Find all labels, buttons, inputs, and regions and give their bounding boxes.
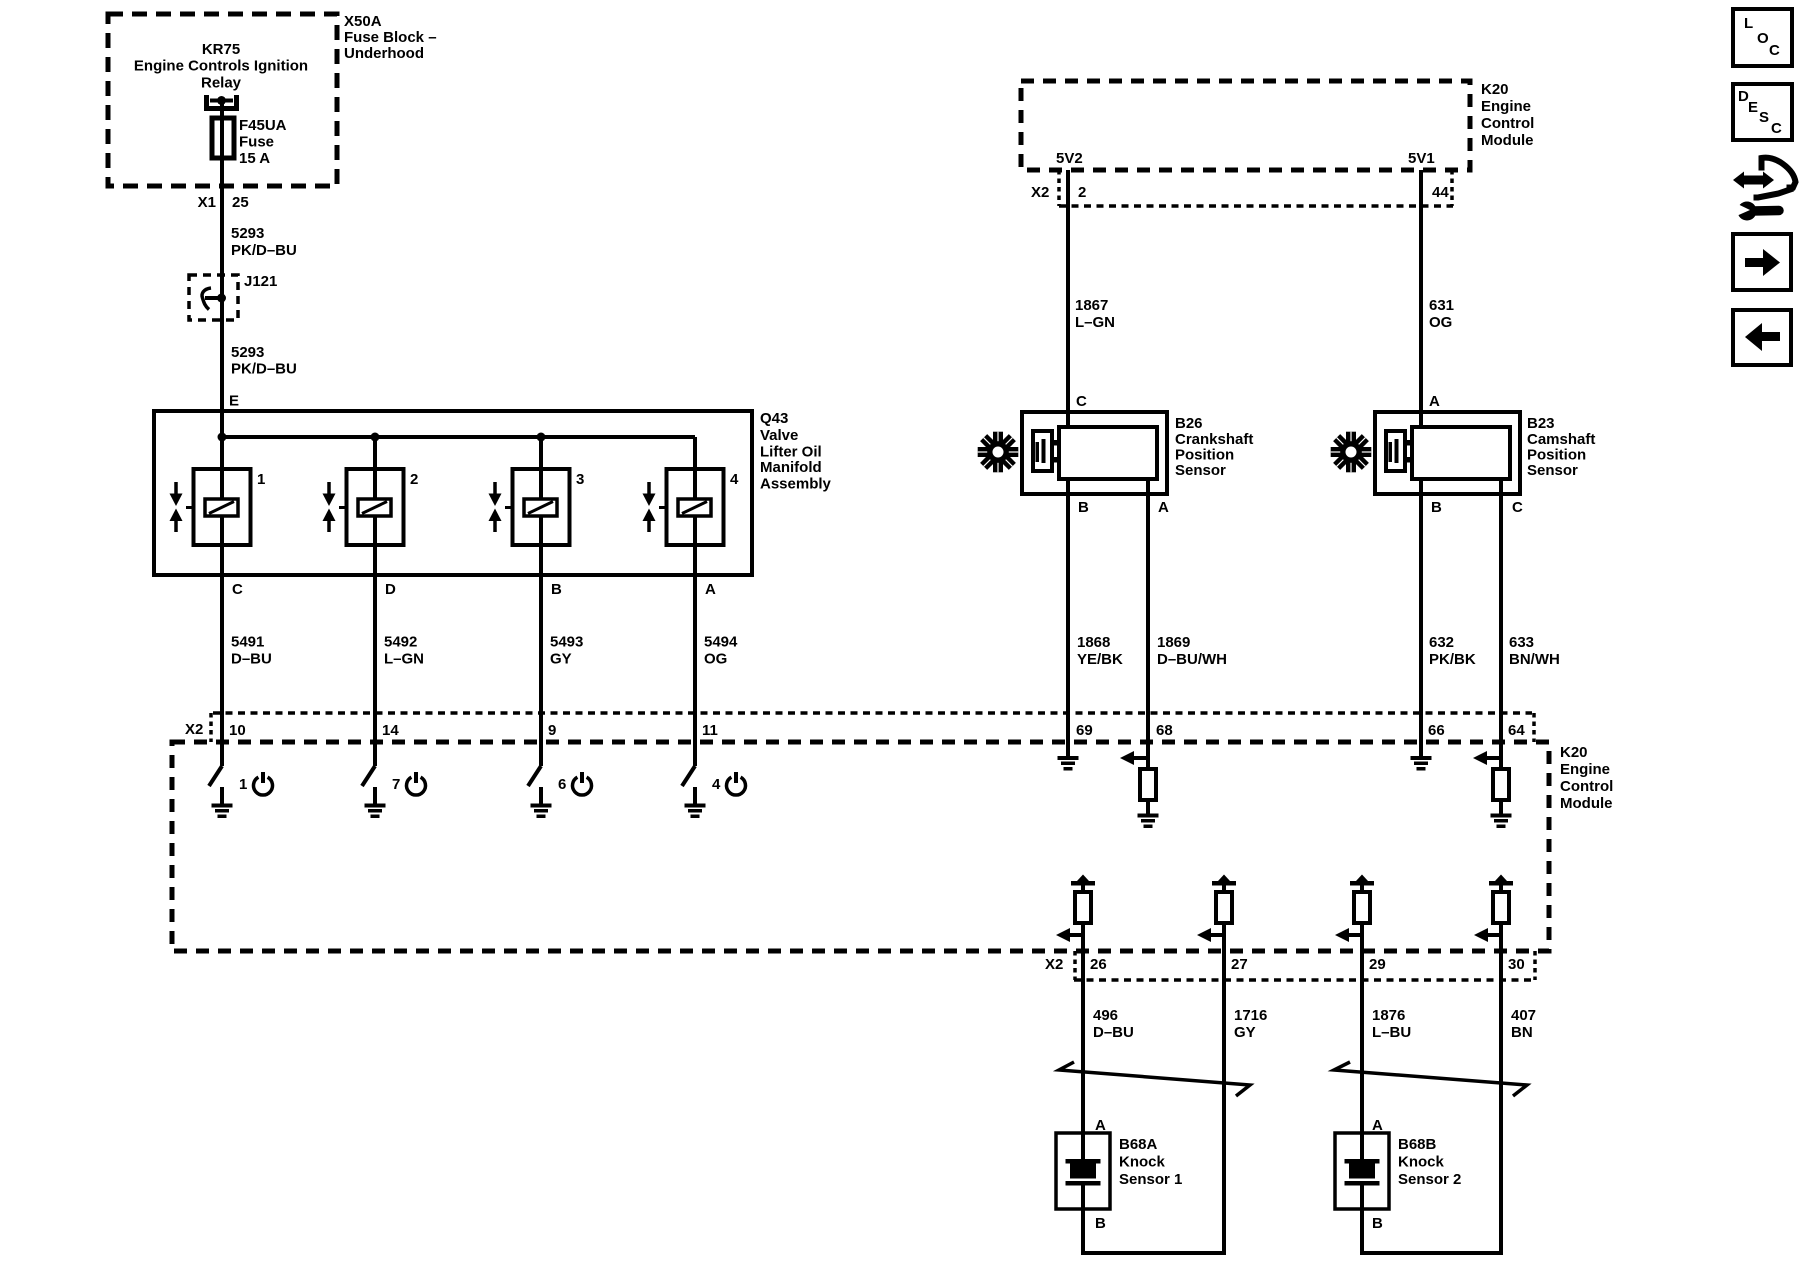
ground symbol under switch 7 xyxy=(373,787,377,804)
svg-text:Valve: Valve xyxy=(760,427,798,444)
wire 631 OG label xyxy=(1429,297,1454,331)
svg-text:25: 25 xyxy=(232,194,249,211)
sensor inner body xyxy=(1412,427,1510,479)
knock sensor 2 B68B xyxy=(1335,1133,1389,1255)
svg-text:Engine: Engine xyxy=(1560,761,1610,778)
low side driver switch 6 xyxy=(528,766,541,786)
svg-text:Camshaft: Camshaft xyxy=(1527,431,1595,448)
svg-text:1867: 1867 xyxy=(1075,297,1108,314)
bus junction node 1 xyxy=(218,433,227,442)
svg-text:Sensor: Sensor xyxy=(1527,462,1578,479)
wire 5493 GY from Q43 pin B to ECM pin 9 xyxy=(539,545,543,766)
sensor connector pins xyxy=(1050,440,1061,446)
wire 407 BN label xyxy=(1511,1007,1536,1041)
svg-text:O: O xyxy=(1757,30,1769,47)
svg-text:3: 3 xyxy=(576,471,584,488)
svg-text:Sensor 2: Sensor 2 xyxy=(1398,1171,1461,1188)
forward navigation icon xyxy=(1733,234,1791,290)
svg-text:66: 66 xyxy=(1428,722,1445,739)
power icon 7 xyxy=(407,777,426,795)
svg-text:E: E xyxy=(229,392,239,409)
svg-text:D–BU/WH: D–BU/WH xyxy=(1157,651,1227,668)
ground symbol under switch 6 xyxy=(539,787,543,804)
svg-text:Knock: Knock xyxy=(1398,1153,1445,1170)
svg-text:68: 68 xyxy=(1156,722,1173,739)
wire 1868 YE/BK label xyxy=(1077,634,1123,668)
svg-text:2: 2 xyxy=(410,471,418,488)
splice J121 symbol xyxy=(202,288,226,310)
B68B label xyxy=(1398,1136,1461,1188)
connector stub bottom right xyxy=(1533,951,1537,980)
svg-text:B68B: B68B xyxy=(1398,1136,1437,1153)
solenoid valve 4 xyxy=(643,469,740,545)
power icon 4 xyxy=(727,777,746,795)
low side driver switch 1 xyxy=(209,766,222,786)
svg-text:15 A: 15 A xyxy=(239,150,270,167)
svg-text:6: 6 xyxy=(558,776,566,793)
ECM internal bias resistor and arrow at pin 27 xyxy=(1197,875,1236,952)
svg-text:1868: 1868 xyxy=(1077,634,1110,651)
svg-text:B26: B26 xyxy=(1175,415,1203,432)
power icon 6 xyxy=(573,777,592,795)
svg-text:5492: 5492 xyxy=(384,633,417,650)
svg-text:K20: K20 xyxy=(1560,744,1588,761)
wire 5491 D&#8211;BU from Q43 pin C to ECM pin 10 xyxy=(220,545,224,766)
svg-text:E: E xyxy=(1748,99,1758,116)
connector X2 stub left xyxy=(209,713,213,742)
svg-text:S: S xyxy=(1759,109,1769,126)
internal bus wire from pin E xyxy=(222,435,695,439)
svg-text:5293: 5293 xyxy=(231,225,264,242)
svg-text:Assembly: Assembly xyxy=(760,475,832,492)
svg-text:KR75: KR75 xyxy=(202,41,240,58)
wire 5492 L&#8211;GN label xyxy=(384,633,424,667)
svg-text:K20: K20 xyxy=(1481,81,1509,98)
svg-text:5V1: 5V1 xyxy=(1408,150,1435,167)
sensor inner body xyxy=(1059,427,1157,479)
svg-text:C: C xyxy=(232,581,243,598)
svg-text:OG: OG xyxy=(1429,314,1452,331)
knock sensor 2 return loop wire xyxy=(1362,1251,1503,1255)
svg-text:Engine: Engine xyxy=(1481,98,1531,115)
svg-text:OG: OG xyxy=(704,650,727,667)
connector stub bottom left xyxy=(1073,951,1077,980)
fuse block X50A label xyxy=(344,13,437,62)
ECM internal bias resistor and arrow at pin 30 xyxy=(1474,875,1513,952)
ECM internal bias resistor and arrow at pin 29 xyxy=(1335,875,1374,952)
connector stub right xyxy=(1532,713,1536,742)
Q43 valve lifter oil manifold assembly box xyxy=(154,411,752,575)
svg-text:Engine Controls Ignition: Engine Controls Ignition xyxy=(134,57,308,74)
ECM internal bias resistor and arrow at pin 26 xyxy=(1056,875,1095,952)
wire 5492 L&#8211;GN from Q43 pin D to ECM pin 14 xyxy=(373,545,377,766)
fuse F45UA symbol xyxy=(212,118,234,158)
svg-text:4: 4 xyxy=(730,471,739,488)
wire 5293 PK/D-BU label (lower) xyxy=(231,344,297,378)
svg-text:9: 9 xyxy=(548,722,556,739)
svg-text:5494: 5494 xyxy=(704,633,738,650)
svg-text:D: D xyxy=(385,581,396,598)
wire 1876 L&#8211;BU label xyxy=(1372,1007,1411,1041)
svg-text:Lifter Oil: Lifter Oil xyxy=(760,443,822,460)
svg-text:44: 44 xyxy=(1432,184,1449,201)
svg-text:PK/BK: PK/BK xyxy=(1429,651,1476,668)
wire 1867 L-GN from ECM pin 2 to sensor B26 xyxy=(1066,170,1070,427)
svg-text:Fuse: Fuse xyxy=(239,133,274,150)
wire 632 PK/BK label xyxy=(1429,634,1476,668)
svg-text:1716: 1716 xyxy=(1234,1007,1267,1024)
svg-text:L–GN: L–GN xyxy=(384,650,424,667)
svg-text:29: 29 xyxy=(1369,956,1386,973)
wire 5293 PK/D-BU label (upper) xyxy=(231,225,297,259)
ground symbol under switch 4 xyxy=(693,787,697,804)
svg-text:4: 4 xyxy=(712,776,721,793)
svg-text:C: C xyxy=(1076,393,1087,410)
K20 engine control module label (lower) xyxy=(1560,744,1613,812)
svg-text:B: B xyxy=(1431,499,1442,516)
signal branch arrow, resistor and ground at ECM pin 64 xyxy=(1473,742,1512,828)
svg-text:Position: Position xyxy=(1527,446,1586,463)
wire 5491 D&#8211;BU label xyxy=(231,633,272,667)
sensor pickup connector xyxy=(1386,431,1405,471)
fuse F45UA label xyxy=(239,117,287,167)
crankshaft position sensor B26 xyxy=(1022,412,1167,494)
svg-text:30: 30 xyxy=(1508,956,1525,973)
low side driver switch 7 xyxy=(362,766,375,786)
twisted pair shield mark 2 xyxy=(1334,1062,1527,1096)
K20 engine control module label (upper) xyxy=(1481,81,1534,149)
B26 label xyxy=(1175,415,1253,479)
svg-text:2: 2 xyxy=(1078,184,1086,201)
svg-text:A: A xyxy=(1372,1117,1383,1134)
knock sensor 1 return loop wire xyxy=(1083,1251,1226,1255)
relay KR75 label xyxy=(134,41,308,92)
svg-text:D–BU: D–BU xyxy=(1093,1024,1134,1041)
svg-text:Control: Control xyxy=(1560,778,1613,795)
solenoid valve 3 xyxy=(489,469,585,545)
connector stub upper left xyxy=(1057,170,1061,206)
svg-text:5293: 5293 xyxy=(231,344,264,361)
svg-text:B68A: B68A xyxy=(1119,1136,1158,1153)
svg-text:J121: J121 xyxy=(244,273,277,290)
svg-text:GY: GY xyxy=(550,650,572,667)
wire 1869 D-BU/WH label xyxy=(1157,634,1227,668)
low side driver switch 4 xyxy=(682,766,695,786)
wire 5493 GY label xyxy=(550,633,583,667)
wire 5494 OG label xyxy=(704,633,738,667)
svg-text:Module: Module xyxy=(1560,795,1613,812)
svg-text:F45UA: F45UA xyxy=(239,117,287,134)
svg-text:X50A: X50A xyxy=(344,13,382,30)
back navigation icon xyxy=(1733,310,1791,365)
wire 631 OG from ECM pin 44 to sensor B23 xyxy=(1419,170,1423,427)
svg-text:27: 27 xyxy=(1231,956,1248,973)
svg-text:PK/D–BU: PK/D–BU xyxy=(231,242,297,259)
wire 1876 L-BU from ECM pin 29 to knock sensor 2 xyxy=(1360,951,1364,1159)
Q43 label xyxy=(760,410,832,493)
svg-text:Knock: Knock xyxy=(1119,1153,1166,1170)
wire 1868 YE/BK from B26 pin B to ECM pin 69 xyxy=(1066,479,1070,742)
ground inside ECM at pin 66 xyxy=(1419,742,1423,757)
svg-text:632: 632 xyxy=(1429,634,1454,651)
svg-text:Q43: Q43 xyxy=(760,410,788,427)
wire 496 D-BU from ECM pin 26 to knock sensor 1 xyxy=(1081,951,1085,1159)
knock sensor 1 B68A xyxy=(1056,1133,1110,1255)
ground symbol under switch 1 xyxy=(220,787,224,804)
svg-text:B23: B23 xyxy=(1527,415,1555,432)
sensor outer housing xyxy=(1022,412,1167,494)
svg-text:Fuse Block –: Fuse Block – xyxy=(344,29,437,46)
svg-text:496: 496 xyxy=(1093,1007,1118,1024)
svg-text:A: A xyxy=(1429,393,1440,410)
svg-text:GY: GY xyxy=(1234,1024,1256,1041)
svg-text:1876: 1876 xyxy=(1372,1007,1405,1024)
service/diagnostic icon double arrow xyxy=(1733,172,1774,189)
svg-text:PK/D–BU: PK/D–BU xyxy=(231,360,297,377)
svg-text:5493: 5493 xyxy=(550,633,583,650)
svg-text:5491: 5491 xyxy=(231,633,264,650)
wire 407 BN from ECM pin 30 to knock sensor 2 low ref xyxy=(1499,951,1503,1255)
svg-text:Manifold: Manifold xyxy=(760,459,822,476)
svg-text:BN: BN xyxy=(1511,1024,1533,1041)
svg-text:B: B xyxy=(1095,1215,1106,1232)
svg-text:B: B xyxy=(551,581,562,598)
sensor pickup connector xyxy=(1033,431,1052,471)
power icon 1 xyxy=(254,777,273,795)
B23 label xyxy=(1527,415,1595,479)
svg-text:631: 631 xyxy=(1429,297,1454,314)
connector strip line above ECM top edge xyxy=(213,711,1532,715)
wire 632 PK/BK from B23 pin B to ECM pin 66 xyxy=(1419,479,1423,742)
reluctor gear B23 xyxy=(1331,432,1372,473)
svg-text:14: 14 xyxy=(382,722,399,739)
connector strip line below ECM bottom edge xyxy=(1074,978,1536,982)
wire 633 BN/WH label xyxy=(1509,634,1560,668)
svg-text:X2: X2 xyxy=(1045,956,1063,973)
svg-text:69: 69 xyxy=(1076,722,1093,739)
wire 633 BN/WH from B23 pin C to ECM pin 64 xyxy=(1499,479,1503,742)
svg-text:L: L xyxy=(1744,15,1753,32)
B68A label xyxy=(1119,1136,1182,1188)
svg-text:407: 407 xyxy=(1511,1007,1536,1024)
svg-text:A: A xyxy=(1158,499,1169,516)
splice J121 dashed box xyxy=(189,275,238,320)
connector X1 pin 25 labels xyxy=(198,194,249,211)
LOC navigation icon xyxy=(1733,9,1792,66)
svg-text:11: 11 xyxy=(702,722,718,739)
svg-text:A: A xyxy=(1095,1117,1106,1134)
service/diagnostic icon wrench xyxy=(1737,202,1780,221)
bus drop wire to solenoid 2 xyxy=(373,437,377,469)
svg-text:X2: X2 xyxy=(185,721,203,738)
svg-text:Crankshaft: Crankshaft xyxy=(1175,431,1253,448)
relay KR75 contact symbol xyxy=(207,95,237,109)
svg-text:26: 26 xyxy=(1090,956,1107,973)
svg-text:C: C xyxy=(1769,42,1780,59)
wire 1716 GY label xyxy=(1234,1007,1267,1041)
svg-text:Position: Position xyxy=(1175,446,1234,463)
svg-text:Sensor 1: Sensor 1 xyxy=(1119,1171,1182,1188)
wire 5494 OG from Q43 pin A to ECM pin 11 xyxy=(693,545,697,766)
svg-text:B: B xyxy=(1372,1215,1383,1232)
signal branch arrow, resistor and ground at ECM pin 68 xyxy=(1120,742,1159,828)
wire from relay through fuse down to Q43 xyxy=(220,100,224,469)
fuse block X50A dashed box xyxy=(108,14,337,186)
svg-text:BN/WH: BN/WH xyxy=(1509,651,1560,668)
svg-text:Sensor: Sensor xyxy=(1175,462,1226,479)
svg-text:Relay: Relay xyxy=(201,74,242,91)
svg-text:7: 7 xyxy=(392,776,400,793)
twisted pair shield mark 1 xyxy=(1059,1062,1250,1096)
svg-text:C: C xyxy=(1512,499,1523,516)
svg-text:Control: Control xyxy=(1481,115,1534,132)
connector strip line below upper ECM xyxy=(1059,204,1453,208)
svg-text:1: 1 xyxy=(257,471,265,488)
connector stub upper right xyxy=(1450,170,1454,206)
wire 496 D&#8211;BU label xyxy=(1093,1007,1134,1041)
K20 engine control module dashed box (lower) xyxy=(172,742,1549,951)
ground inside ECM at pin 69 xyxy=(1066,742,1070,757)
solenoid valve 1 xyxy=(170,469,266,545)
svg-text:Underhood: Underhood xyxy=(344,45,424,62)
bus drop wire to solenoid 4 xyxy=(693,437,697,469)
wire 1869 D-BU/WH from B26 pin A to ECM pin 68 xyxy=(1146,479,1150,742)
svg-text:64: 64 xyxy=(1508,722,1525,739)
svg-text:633: 633 xyxy=(1509,634,1534,651)
DESC navigation icon xyxy=(1733,84,1792,140)
K20 engine control module dashed box (upper) xyxy=(1021,81,1470,170)
svg-text:5V2: 5V2 xyxy=(1056,150,1083,167)
svg-text:10: 10 xyxy=(229,722,246,739)
bus junction node 3 xyxy=(537,433,546,442)
service/diagnostic icon outline arrow xyxy=(1754,158,1796,198)
sensor connector pins xyxy=(1403,440,1414,446)
svg-text:X2: X2 xyxy=(1031,184,1049,201)
svg-text:YE/BK: YE/BK xyxy=(1077,651,1123,668)
svg-text:1: 1 xyxy=(239,776,247,793)
svg-text:D–BU: D–BU xyxy=(231,650,272,667)
svg-text:B: B xyxy=(1078,499,1089,516)
bus drop wire to solenoid 3 xyxy=(539,437,543,469)
sensor outer housing xyxy=(1375,412,1520,494)
bus junction node 2 xyxy=(371,433,380,442)
svg-text:C: C xyxy=(1771,120,1782,137)
svg-text:A: A xyxy=(705,581,716,598)
svg-text:L–GN: L–GN xyxy=(1075,314,1115,331)
svg-text:1869: 1869 xyxy=(1157,634,1190,651)
wire 1716 GY from ECM pin 27 to knock sensor 1 low ref xyxy=(1222,951,1226,1255)
wire 1867 L-GN label xyxy=(1075,297,1115,331)
svg-text:Module: Module xyxy=(1481,132,1534,149)
camshaft position sensor B23 xyxy=(1375,412,1520,494)
solenoid valve 2 xyxy=(323,469,419,545)
reluctor gear B26 xyxy=(978,432,1019,473)
svg-text:L–BU: L–BU xyxy=(1372,1024,1411,1041)
svg-text:X1: X1 xyxy=(198,194,216,211)
